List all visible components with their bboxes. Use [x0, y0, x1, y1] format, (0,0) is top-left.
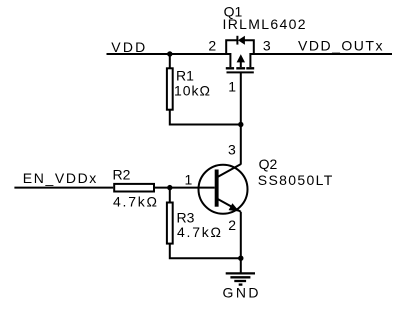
svg-text:3: 3 [228, 141, 236, 157]
wire R1 top [169, 54, 171, 68]
junction base node [167, 185, 172, 190]
wire collector lead [240, 125, 242, 165]
mosfet Q1 body-diode left arm [226, 40, 237, 55]
wire R1 bottom to gate node [170, 110, 241, 125]
ground bar 4 [239, 283, 243, 285]
wire gate lead [240, 72, 242, 124]
transistor Q2 circle [199, 165, 248, 214]
svg-text:2: 2 [228, 217, 236, 233]
resistor R2 [114, 184, 154, 192]
svg-text:EN_VDDx: EN_VDDx [23, 170, 97, 186]
mosfet Q1 bulk stub [240, 61, 242, 67]
svg-text:3: 3 [263, 37, 271, 53]
mosfet Q1 channel segment left [226, 67, 234, 69]
svg-text:2: 2 [208, 37, 216, 53]
svg-text:VDD: VDD [111, 39, 145, 55]
wire R3 bottom to emitter node [170, 244, 241, 259]
svg-text:10kΩ: 10kΩ [174, 82, 210, 98]
svg-text:GND: GND [223, 285, 259, 301]
svg-text:R1: R1 [176, 67, 194, 83]
wire EN_VDDx [14, 187, 113, 189]
svg-text:1: 1 [185, 171, 193, 187]
junction VDD/R1 [167, 51, 172, 56]
junction gate node [238, 122, 243, 127]
ground bar 3 [234, 280, 246, 282]
svg-text:Q2: Q2 [259, 156, 278, 172]
transistor Q2 emitter diagonal [218, 199, 241, 212]
svg-text:4.7kΩ: 4.7kΩ [177, 224, 221, 240]
wire pin3 to VDD_OUTx [250, 53, 392, 55]
svg-text:SS8050LT: SS8050LT [258, 172, 333, 188]
mosfet Q1 body-diode cathode bar [236, 36, 238, 45]
mosfet Q1 source stub [229, 53, 231, 67]
wire emitter lead [240, 212, 242, 258]
transistor Q2 emitter arrow [229, 203, 240, 211]
ground bar 2 [230, 276, 250, 278]
junction emitter node [238, 256, 243, 261]
ground bar 1 [226, 272, 255, 274]
mosfet Q1 body-diode triangle [238, 36, 245, 45]
wire ground stub [240, 258, 242, 273]
transistor Q2 collector diagonal [218, 164, 241, 177]
wire VDD rail [107, 53, 231, 55]
resistor R3 [167, 203, 173, 244]
transistor Q2 base bar [215, 170, 219, 207]
svg-text:R2: R2 [113, 166, 131, 182]
wire R3 top [169, 188, 171, 203]
mosfet Q1 drain stub [249, 53, 251, 67]
mosfet Q1 body-diode right arm [245, 40, 254, 55]
resistor R1 [167, 68, 173, 109]
mosfet Q1 channel segment middle [236, 67, 245, 69]
svg-text:IRLML6402: IRLML6402 [223, 16, 306, 32]
mosfet Q1 channel segment right [246, 67, 254, 69]
wire R2 to base [154, 187, 215, 189]
svg-text:4.7kΩ: 4.7kΩ [113, 194, 157, 210]
mosfet Q1 gate bar [227, 71, 254, 73]
svg-text:1: 1 [228, 79, 236, 95]
mosfet Q1 bulk arrow [237, 54, 245, 62]
